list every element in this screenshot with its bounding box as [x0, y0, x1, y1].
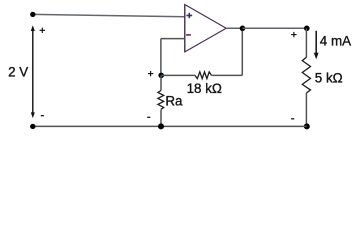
- value label 4 mA: [320, 34, 351, 49]
- svg-text:2 V: 2 V: [8, 64, 28, 79]
- value label 18 kOhm: [187, 81, 222, 96]
- wire bottom rail: [33, 125, 307, 127]
- pin + noninverting input marker of op-amp U1: [186, 13, 192, 18]
- svg-text:Ra: Ra: [165, 93, 183, 108]
- wire top from source to op-amp noninverting input: [33, 14, 185, 16]
- node D top-right junction dot: [304, 26, 310, 32]
- node A top-left junction dot: [30, 12, 35, 17]
- polarity - at load bottom: [291, 118, 294, 120]
- wire node B down to resistor Ra top lead: [160, 75, 162, 90]
- current arrow 4 mA: [314, 31, 319, 59]
- value label 5 kOhm: [315, 70, 343, 85]
- wire node D down to resistor 5k top lead: [305, 28, 307, 57]
- wire resistor 5k bottom lead down to node E: [305, 93, 307, 126]
- polarity + of source V1: [40, 28, 45, 33]
- wire inverting input horizontal segment: [161, 38, 185, 40]
- node F bottom-left junction dot: [30, 124, 35, 129]
- svg-text:4 mA: 4 mA: [320, 34, 351, 49]
- wire op-amp output to node C: [226, 27, 242, 29]
- node B junction dot: [158, 73, 164, 79]
- polarity + at node B: [148, 71, 153, 76]
- wire from node C to node D top-right: [243, 27, 307, 29]
- svg-text:18 kΩ: 18 kΩ: [187, 81, 222, 96]
- wire feedback right vertical up to output node: [241, 28, 243, 75]
- value label 2 V: [8, 64, 28, 79]
- svg-text:5 kΩ: 5 kΩ: [315, 70, 343, 85]
- node C output junction dot: [240, 26, 246, 32]
- voltage source V1 2V double-headed arrow: [31, 25, 35, 118]
- node G bottom junction dot of Ra: [158, 123, 164, 129]
- resistor R2 5k zigzag: [302, 57, 310, 93]
- node E bottom-right junction dot: [304, 123, 310, 129]
- wire from resistor 18k right lead to corner: [212, 74, 243, 76]
- polarity - of source V1: [41, 115, 44, 117]
- resistor Ra zigzag: [158, 91, 164, 110]
- value label Ra: [165, 93, 183, 108]
- wire resistor Ra bottom lead down to node G: [160, 110, 162, 127]
- op-amp U1 triangle: [185, 5, 226, 52]
- polarity + at load top: [291, 32, 296, 37]
- wire from node B to resistor 18k left lead: [161, 74, 195, 76]
- resistor R1 18k zigzag: [195, 72, 212, 79]
- wire feedback vertical segment down to node B: [160, 39, 162, 76]
- pin - inverting input marker of op-amp U1: [186, 34, 191, 36]
- polarity - at node G: [147, 116, 150, 118]
